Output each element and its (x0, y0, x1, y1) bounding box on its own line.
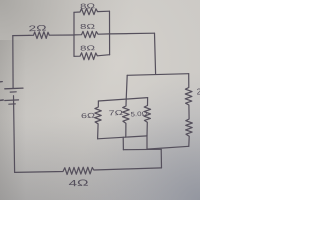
wire right loop bottom (147, 146, 189, 149)
svg-text:2: 2 (197, 88, 200, 97)
resistor R2 8ohm top (74, 8, 110, 15)
wire box bottom down (122, 137, 124, 150)
svg-text:2Ω: 2Ω (28, 23, 46, 33)
wire box corner to right loop bottom (146, 136, 148, 149)
wire right corner down (155, 33, 156, 74)
svg-text:4Ω: 4Ω (68, 178, 89, 189)
battery polarity mark lower (0, 99, 3, 101)
parallel group right rail (109, 11, 111, 55)
battery polarity mark upper (0, 81, 2, 83)
svg-text:8Ω: 8Ω (80, 3, 95, 11)
wire lower jog down (160, 149, 162, 168)
resistor R7 5ohm (144, 98, 151, 136)
svg-text:8Ω: 8Ω (80, 24, 95, 32)
resistor R1 2ohm (29, 32, 74, 39)
svg-text:6Ω: 6Ω (81, 113, 95, 121)
parallel group left rail (73, 12, 75, 56)
battery cell1 short plate (10, 91, 16, 93)
svg-text:5.0Ω: 5.0Ω (130, 111, 148, 119)
resistor R5 6ohm (95, 101, 102, 139)
wire top-left from battery to resistor 2ohm (13, 34, 29, 36)
resistor R3 8ohm middle (74, 31, 110, 38)
wire down to middle box (126, 75, 127, 99)
left edge shading (0, 40, 26, 200)
resistor R4 8ohm bottom (74, 53, 110, 60)
wire bottom with resistor R10 4ohm (15, 167, 162, 174)
svg-text:7Ω: 7Ω (108, 110, 123, 118)
battery cell2 long plate (5, 99, 19, 102)
middle box top edge (98, 98, 147, 101)
resistor R6 7ohm (123, 99, 130, 137)
wire lower jog horizontal (123, 148, 161, 150)
wire horizontal node bus (127, 74, 189, 76)
paper background (0, 0, 200, 200)
wire group to right corner (110, 32, 155, 35)
svg-text:8Ω: 8Ω (80, 45, 95, 53)
battery cell2 short plate (9, 103, 16, 105)
wire battery bottom lead (14, 96, 15, 173)
wire battery top lead (12, 36, 14, 89)
battery cell1 long plate (5, 87, 23, 90)
resistor R8 right upper and R9 right lower in series (185, 74, 192, 147)
middle box bottom edge (98, 136, 147, 139)
